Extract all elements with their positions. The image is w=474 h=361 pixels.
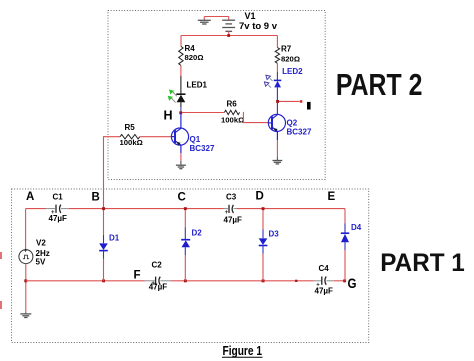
wire: Q1 emitter to ground [180, 153, 182, 161]
svg-text:R4: R4 [185, 44, 196, 53]
wire: C4 to G [334, 280, 345, 282]
PART 1 enclosure box [12, 189, 369, 343]
LED LED1 [176, 93, 185, 95]
wire: R4 to LED1 [180, 65, 182, 76]
wire: tap to Q2 collector [276, 103, 278, 115]
capacitor C4 [314, 280, 321, 282]
ground (Q1) [176, 165, 186, 169]
capacitor C2 [145, 280, 155, 282]
wire: C3 to D to E [237, 208, 345, 210]
diode D3 [259, 238, 268, 245]
wire: battery bottom stem [228, 31, 230, 35]
node C dot [184, 207, 187, 210]
svg-text:LED1: LED1 [187, 81, 208, 90]
svg-text:47µF: 47µF [149, 282, 168, 291]
svg-text:820Ω: 820Ω [185, 53, 204, 62]
svg-text:5V: 5V [36, 258, 46, 267]
wire: V1 top to ground [204, 17, 228, 21]
svg-text:Q1: Q1 [190, 135, 201, 144]
transistor Q2 [268, 114, 285, 140]
wire: rail down to R4 [180, 36, 182, 47]
node junction dot (Q2 collector / I tap) [276, 100, 279, 103]
PART 2 enclosure box [108, 11, 325, 180]
wire: C drop / diode D2 branch [184, 210, 186, 228]
svg-text:PART 2: PART 2 [336, 68, 423, 102]
wire: C1 to B to C [69, 208, 224, 210]
svg-text:LED2: LED2 [282, 67, 303, 76]
svg-text:D1: D1 [109, 234, 120, 243]
wire: bottom rail V2 to C2 [26, 280, 145, 282]
svg-text:C: C [178, 192, 186, 204]
capacitor C3 [224, 208, 229, 210]
svg-text:C3: C3 [226, 193, 237, 202]
node H dot [179, 111, 182, 114]
svg-text:F: F [134, 270, 141, 282]
diode D1 [99, 243, 108, 250]
svg-text:+: + [24, 248, 28, 255]
svg-text:D: D [256, 191, 264, 203]
battery V1 [222, 20, 235, 31]
wire: I probe [279, 100, 299, 102]
transistor Q1 [171, 113, 188, 154]
node junction dot (battery/rail) [227, 34, 230, 37]
svg-text:R7: R7 [281, 45, 292, 54]
svg-text:C1: C1 [53, 193, 64, 202]
svg-text:H: H [164, 109, 173, 123]
svg-text:D3: D3 [269, 230, 280, 239]
node D dot [262, 207, 265, 210]
svg-text:B: B [92, 192, 100, 204]
svg-text:Q2: Q2 [287, 119, 298, 128]
resistor R4 [179, 46, 183, 65]
wire: A drop to V2 [25, 209, 27, 250]
ground (Q2) [273, 161, 283, 164]
svg-text:Figure 1: Figure 1 [223, 344, 263, 358]
svg-text:C4: C4 [319, 264, 330, 273]
diode D2 [181, 239, 190, 241]
ground (top, V1) [198, 20, 211, 24]
LED1 emission arrows (green) [173, 92, 177, 96]
wire: top rail PART2 [181, 35, 277, 37]
svg-text:C2: C2 [152, 261, 163, 270]
svg-text:E: E [328, 191, 336, 203]
svg-text:PART 1: PART 1 [380, 249, 465, 277]
resistor R7 [275, 48, 279, 64]
svg-text:R6: R6 [227, 100, 238, 109]
resistor R5 [120, 135, 140, 139]
capacitor C1 [46, 208, 55, 210]
node B dot [102, 207, 105, 210]
svg-text:V2: V2 [36, 239, 46, 248]
svg-text:47µF: 47µF [224, 216, 243, 225]
svg-text:A: A [26, 191, 34, 203]
screen-edge artifacts [0, 252, 2, 309]
wire: D drop / diode D3 branch [262, 210, 264, 230]
svg-text:100kΩ: 100kΩ [221, 115, 244, 124]
wire: R7 to LED2 [276, 63, 278, 72]
wire: R6 to Q2 base [243, 112, 268, 122]
svg-text:D2: D2 [192, 229, 203, 238]
svg-text:100kΩ: 100kΩ [120, 138, 143, 147]
wire: Q2 emitter to ground [276, 140, 278, 157]
wire: rail down to R7 [276, 36, 278, 48]
wire: E drop / diode D4 branch [344, 209, 346, 224]
svg-text:V1: V1 [245, 11, 256, 21]
LED LED2 [274, 79, 282, 81]
svg-text:G: G [348, 275, 357, 291]
svg-text:BC327: BC327 [287, 128, 312, 137]
wire: R5 to Q1 base [140, 136, 172, 138]
svg-text:7v to 9 v: 7v to 9 v [239, 21, 278, 32]
diode D4 [341, 232, 349, 234]
wire: H to R6 [182, 112, 224, 114]
wire: bottom rail C2 to C4 [171, 280, 314, 282]
wire: V2 bottom to rail and ground [25, 264, 27, 313]
source V2 [19, 250, 33, 264]
svg-text:D4: D4 [351, 223, 362, 232]
svg-text:R5: R5 [125, 123, 136, 132]
bottom rail junction dots [102, 279, 105, 282]
wire: B drop / diode D1 branch [103, 210, 105, 235]
svg-text:820Ω: 820Ω [281, 54, 300, 63]
node dot (V2/rail) [24, 279, 27, 282]
LED2 emission arrows (outline) [270, 78, 273, 81]
wire: B riser to R5 [104, 137, 121, 209]
ground (V2) [20, 314, 31, 318]
svg-text:BC327: BC327 [190, 144, 215, 153]
svg-text:47µF: 47µF [315, 286, 334, 295]
label I [307, 102, 311, 110]
svg-text:47µF: 47µF [49, 214, 68, 223]
wire: top rail PART1 (A to C1) [26, 208, 47, 210]
resistor R6 [224, 110, 239, 114]
